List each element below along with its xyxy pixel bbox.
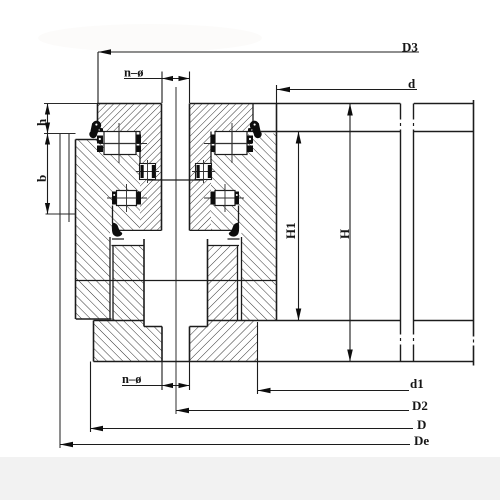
white dots in bars	[99, 138, 251, 196]
seal rect cavity left	[140, 164, 156, 180]
D3 dimension line	[98, 51, 419, 53]
upper roller right	[215, 132, 247, 155]
lower roller left bars	[112, 192, 117, 205]
d left arrow	[277, 87, 290, 93]
svg-text:b: b	[34, 175, 49, 182]
H1 arrows	[296, 132, 302, 144]
lower roller left	[117, 191, 137, 206]
seal rect cavity right	[196, 164, 212, 180]
lower piece top faces	[112, 245, 240, 247]
outer mass left edge	[75, 140, 77, 320]
d1 dimension	[258, 390, 410, 392]
bottom plate top left	[94, 320, 145, 322]
wedge gap white right	[190, 231, 242, 245]
strip left edge / De extension	[59, 134, 61, 449]
h arrows	[45, 104, 50, 115]
seal rect right bars	[197, 165, 200, 178]
outer mass bottom	[76, 318, 112, 320]
n-phi bottom arrows	[162, 383, 173, 388]
side view top line	[277, 103, 474, 105]
svg-text:H: H	[337, 229, 352, 239]
short ledge lines near lower blobs	[112, 238, 240, 240]
D2 dimension	[176, 410, 409, 412]
H arrows	[347, 104, 353, 116]
svg-text:n–ø: n–ø	[124, 66, 143, 80]
svg-text:d1: d1	[410, 376, 424, 391]
svg-text:D3: D3	[402, 40, 418, 55]
bottom line full	[94, 361, 474, 363]
outer ring left mass hatch	[76, 140, 142, 231]
outer mass top face	[76, 139, 98, 141]
band center dashes	[401, 123, 474, 343]
bottom plate left edge	[93, 321, 95, 362]
counterbore shelf	[144, 326, 208, 328]
H dimension	[349, 104, 351, 362]
counterbore walls	[144, 239, 208, 327]
joint line across body	[76, 280, 277, 282]
upper roller left bars	[97, 136, 103, 144]
upper roller right bars	[211, 135, 216, 144]
strip inner line	[68, 134, 70, 223]
d dimension line	[277, 89, 417, 91]
bottom plate right hatch	[190, 321, 258, 362]
bolt hole walls upper	[162, 104, 190, 231]
band line 1	[400, 104, 402, 362]
upper piece bottoms at wedge	[112, 229, 239, 231]
strip top line	[44, 133, 76, 135]
seal rect left bars	[141, 165, 144, 178]
D2 left arrow	[176, 408, 189, 414]
top plate left hatch	[97, 104, 162, 132]
d1 left arrow	[258, 388, 271, 394]
lower blob left	[112, 223, 122, 237]
lower piece side edges	[113, 246, 238, 321]
lower blob right	[229, 223, 239, 237]
band line 2	[413, 104, 415, 362]
inner lower piece left hatch	[113, 246, 144, 321]
top plate left edge	[97, 104, 99, 123]
top seal blob left	[89, 121, 103, 139]
upper roller right centerlines	[204, 123, 252, 163]
top plate right edge	[252, 104, 254, 122]
De left arrow	[60, 442, 73, 448]
seal rect left	[140, 164, 156, 180]
upper roller cavity right	[215, 132, 247, 155]
h top extension	[44, 103, 97, 105]
n-phi top arrows	[162, 76, 173, 81]
joint line across center column	[147, 179, 204, 181]
D dimension	[90, 428, 413, 430]
D3 left arrow	[98, 49, 111, 55]
svg-text:D2: D2	[412, 398, 428, 413]
lower roller cavity left	[117, 191, 137, 206]
svg-text:n–ø: n–ø	[122, 372, 141, 386]
bottom plate top right and side-view line	[208, 320, 474, 322]
H1 dimension	[298, 132, 300, 321]
De dimension	[60, 444, 410, 446]
svg-text:D: D	[417, 417, 426, 432]
n-phi top dimension	[124, 78, 190, 80]
top seal blob right	[248, 121, 262, 139]
bottom plate left hatch	[94, 321, 163, 362]
svg-text:d: d	[408, 76, 416, 91]
top plate right hatch	[190, 104, 254, 132]
body right edge	[276, 104, 278, 321]
side view right edge	[473, 100, 475, 366]
top face line	[97, 103, 277, 105]
svg-text:De: De	[414, 433, 429, 448]
seal rect right	[196, 164, 212, 180]
outer ring right mass hatch	[211, 153, 277, 231]
lower roller right bars	[211, 192, 216, 205]
strip bottom / b extension	[46, 213, 77, 215]
upper roller left centerlines	[99, 123, 147, 163]
lower roller right centerlines	[204, 184, 244, 212]
lower roller left centerlines	[107, 184, 147, 212]
exit hole walls	[162, 327, 190, 362]
wedge gap white left	[110, 231, 162, 245]
n-phi bottom dimension	[122, 385, 190, 387]
svg-text:h: h	[34, 118, 49, 126]
bottom gray band	[0, 457, 500, 500]
counterbore white	[144, 239, 208, 327]
inner lower piece right hatch	[208, 246, 238, 321]
seal gap bottom right / side view second line	[259, 131, 474, 133]
h and b dimension line	[47, 104, 49, 215]
svg-text:H1: H1	[283, 222, 298, 239]
D left arrow	[90, 426, 103, 432]
top plate bottom small steps	[136, 132, 211, 164]
mass inner edges above blobs	[113, 206, 239, 224]
mass inner edges near wedge	[110, 237, 242, 321]
top plate bottom edges	[97, 131, 253, 133]
b arrows	[45, 134, 50, 145]
faint watermark top-left	[38, 24, 262, 52]
lower roller cavity right	[215, 191, 235, 206]
upper roller left	[104, 132, 136, 155]
upper roller cavity left	[104, 132, 136, 155]
lower roller right	[215, 191, 235, 206]
